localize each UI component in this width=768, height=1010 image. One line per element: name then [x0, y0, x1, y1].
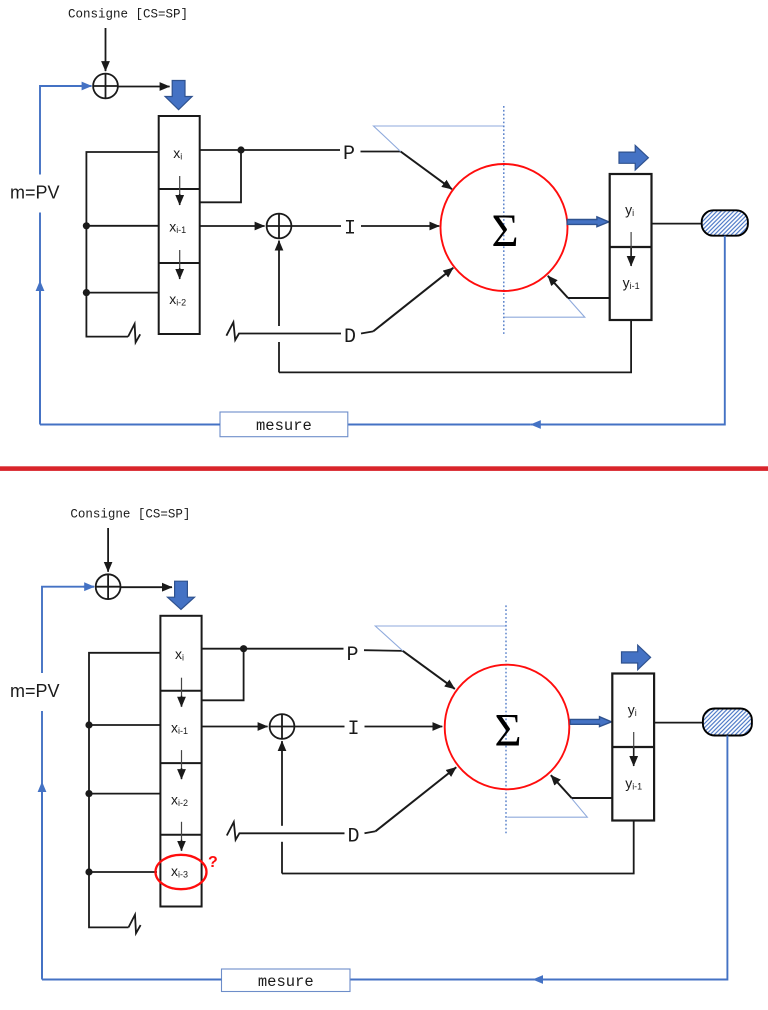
- svg-text:m=PV: m=PV: [10, 183, 60, 203]
- svg-text:?: ?: [208, 854, 218, 871]
- svg-text:mesure: mesure: [256, 417, 312, 435]
- svg-text:P: P: [347, 644, 359, 667]
- svg-text:D: D: [348, 826, 360, 849]
- svg-text:Σ: Σ: [491, 206, 518, 257]
- svg-text:I: I: [344, 217, 356, 240]
- svg-text:I: I: [348, 718, 360, 741]
- svg-text:D: D: [344, 326, 356, 349]
- svg-text:P: P: [343, 143, 355, 166]
- svg-text:m=PV: m=PV: [10, 681, 60, 701]
- svg-text:mesure: mesure: [258, 973, 314, 991]
- svg-text:Consigne [CS=SP]: Consigne [CS=SP]: [68, 8, 188, 22]
- svg-text:Σ: Σ: [494, 706, 521, 757]
- svg-text:Consigne [CS=SP]: Consigne [CS=SP]: [70, 508, 190, 522]
